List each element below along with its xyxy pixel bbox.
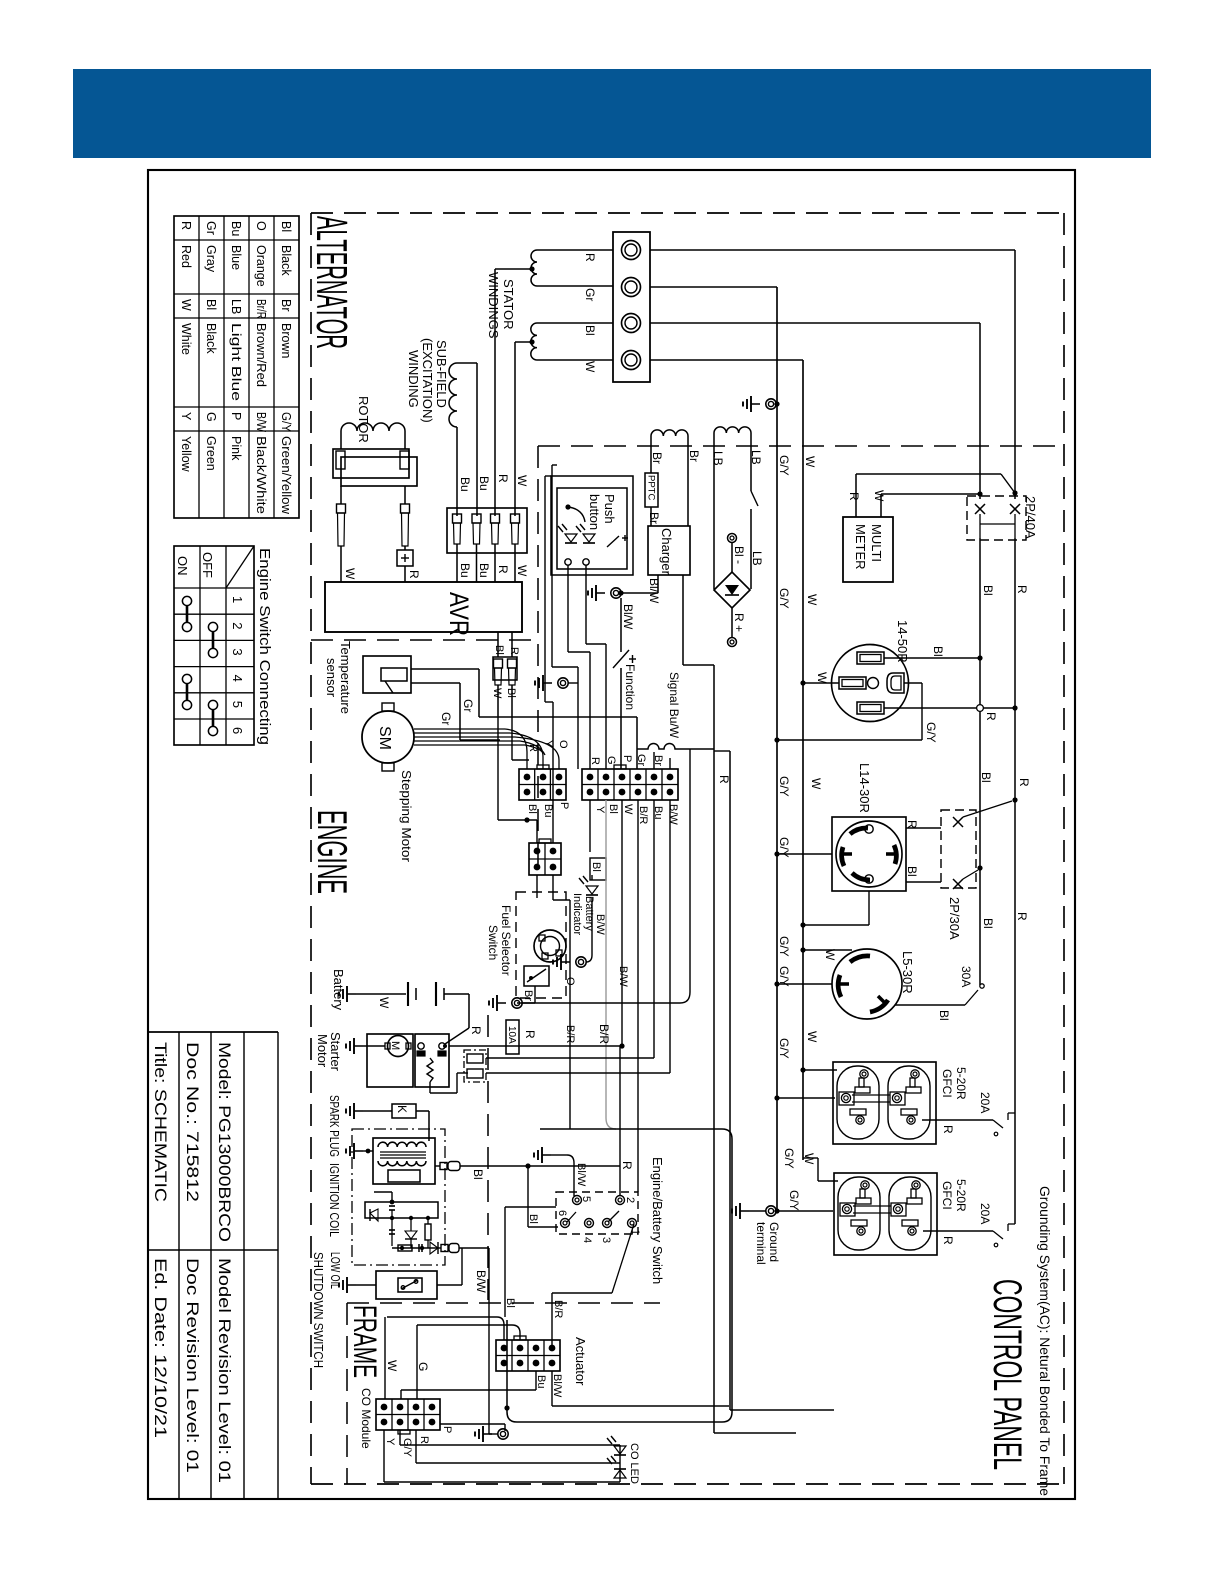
svg-text:Bl: Bl — [204, 299, 218, 310]
Bl- terminal — [728, 534, 737, 573]
svg-text:Green: Green — [204, 436, 218, 471]
svg-text:L14-30R: L14-30R — [857, 763, 872, 813]
svg-text:Bl: Bl — [607, 804, 619, 814]
LB switch — [751, 491, 758, 589]
svg-text:Engine/Battery Switch: Engine/Battery Switch — [650, 1157, 665, 1284]
temperature sensor — [363, 656, 411, 693]
svg-text:SUB-FIELD: SUB-FIELD — [434, 340, 449, 408]
svg-text:Switch: Switch — [486, 925, 500, 960]
svg-text:4: 4 — [230, 675, 245, 682]
svg-text:G/Y: G/Y — [279, 412, 293, 433]
svg-text:Gr: Gr — [204, 221, 218, 235]
svg-text:R: R — [1015, 585, 1029, 594]
svg-text:Bu: Bu — [477, 476, 491, 491]
svg-text:Gr: Gr — [461, 699, 475, 712]
push button box — [557, 488, 627, 569]
svg-text:Br: Br — [652, 755, 664, 766]
svg-text:Bl: Bl — [493, 645, 505, 655]
svg-text:CONTROL PANEL: CONTROL PANEL — [985, 1279, 1029, 1470]
push button outer box — [551, 476, 633, 575]
relay to battery wire — [443, 1028, 469, 1048]
svg-text:SM: SM — [376, 726, 393, 750]
svg-text:G/Y: G/Y — [777, 588, 791, 609]
svg-text:ROTOR: ROTOR — [356, 396, 371, 443]
svg-text:Grounding System(AC): Netura: Grounding System(AC): Netural Bonded To … — [1037, 1186, 1052, 1496]
title block — [148, 1032, 278, 1499]
Br return wire — [523, 749, 690, 1003]
drawing frame border — [148, 170, 1075, 1499]
big loop wire — [504, 1129, 732, 1422]
svg-text:R: R — [496, 565, 510, 574]
function switch — [613, 598, 636, 769]
ground terminal — [732, 1203, 780, 1219]
R+ terminal — [728, 608, 737, 647]
svg-text:Br: Br — [522, 990, 534, 1001]
gray wire curve — [606, 1118, 616, 1129]
PPTC fuse — [645, 473, 658, 526]
svg-text:R: R — [523, 1030, 537, 1039]
svg-text:R: R — [469, 1026, 483, 1035]
svg-text:B/W: B/W — [667, 804, 679, 825]
CDI network — [365, 1192, 489, 1254]
svg-text:LB: LB — [229, 299, 243, 314]
svg-text:Fuel Selector: Fuel Selector — [499, 905, 513, 976]
section boundary dashed box — [311, 213, 1064, 1484]
fuel selector knob — [534, 930, 566, 962]
svg-text:Bu: Bu — [542, 804, 554, 817]
svg-text:G/Y: G/Y — [787, 1190, 801, 1211]
svg-text:2: 2 — [624, 1197, 636, 1203]
CO LED — [607, 1436, 626, 1482]
frame ground — [475, 1424, 508, 1442]
L5-30R receptacle — [832, 949, 902, 1019]
svg-text:B/R: B/R — [637, 806, 649, 824]
svg-text:2P/30A: 2P/30A — [947, 897, 962, 940]
Bl label small box — [590, 858, 606, 880]
svg-text:Bl: Bl — [583, 325, 597, 336]
svg-text:White: White — [179, 323, 193, 355]
stator feed wires to breaker — [650, 250, 1015, 499]
svg-text:WINDING: WINDING — [406, 350, 421, 408]
charger box — [648, 526, 690, 576]
svg-text:OFF: OFF — [200, 552, 215, 578]
svg-text:G/Y: G/Y — [777, 1038, 791, 1059]
multimeter — [843, 517, 893, 582]
starter relay — [415, 1034, 468, 1093]
B/R wire from switch lever — [552, 1224, 634, 1347]
svg-text:Y: Y — [179, 412, 193, 421]
svg-text:Actuator: Actuator — [573, 1337, 588, 1386]
svg-text:Bl: Bl — [979, 772, 993, 783]
G/Y neutral bus — [743, 287, 780, 1211]
svg-text:G/Y: G/Y — [777, 776, 791, 797]
svg-text:R: R — [496, 474, 510, 483]
svg-text:Bu: Bu — [458, 477, 472, 492]
connector B (6x2) — [582, 765, 678, 800]
svg-text:W: W — [802, 1153, 816, 1165]
svg-text:W: W — [515, 565, 529, 577]
svg-text:Bl: Bl — [981, 918, 995, 929]
B/W wire from module — [489, 1248, 498, 1434]
ground mid cluster — [535, 675, 578, 691]
svg-text:6: 6 — [556, 1210, 568, 1216]
svg-text:FRAME: FRAME — [347, 1305, 383, 1378]
ignition module dash-dot box — [352, 1129, 445, 1265]
Br choke coil — [651, 430, 688, 526]
Gr wires from sensor — [411, 669, 637, 769]
W bus — [802, 360, 804, 1160]
svg-text:Gr: Gr — [439, 712, 453, 725]
svg-text:Bl/W: Bl/W — [575, 1163, 587, 1187]
svg-text:Title: SCHEMATIC: Title: SCHEMATIC — [151, 1042, 170, 1202]
svg-text:W: W — [377, 997, 391, 1009]
svg-text:Pink: Pink — [229, 436, 243, 461]
svg-text:sensor: sensor — [324, 658, 339, 698]
low oil switch — [339, 1248, 462, 1299]
engine battery switch — [556, 1192, 638, 1234]
svg-text:Bl/W: Bl/W — [621, 604, 635, 630]
rotor winding — [341, 423, 405, 431]
svg-text:Red: Red — [179, 245, 193, 268]
svg-text:R: R — [941, 1125, 955, 1134]
svg-text:Model: PG13000BRCO: Model: PG13000BRCO — [215, 1042, 234, 1242]
svg-text:Bu: Bu — [229, 221, 243, 236]
sub-field winding — [449, 363, 477, 516]
svg-text:Doc Revision Level: 01: Doc Revision Level: 01 — [183, 1258, 202, 1473]
svg-text:R: R — [905, 820, 919, 829]
plus terminal box — [341, 546, 413, 582]
svg-text:B/W: B/W — [594, 914, 606, 935]
svg-text:Charger: Charger — [659, 528, 674, 576]
svg-text:W: W — [823, 949, 837, 961]
svg-text:Br: Br — [647, 512, 661, 524]
svg-text:6: 6 — [230, 727, 245, 734]
svg-text:Battery: Battery — [583, 896, 595, 931]
svg-text:B/W: B/W — [617, 966, 629, 987]
svg-text:R +: R + — [732, 613, 746, 632]
svg-text:Bl -: Bl - — [732, 546, 746, 564]
long frame wires — [714, 665, 834, 1433]
svg-text:W: W — [179, 299, 193, 311]
svg-text:Black/White: Black/White — [254, 436, 268, 514]
svg-text:B/W: B/W — [254, 412, 268, 432]
svg-text:5: 5 — [580, 1196, 592, 1202]
L5-30R wires — [774, 947, 984, 1005]
svg-text:W: W — [809, 778, 823, 790]
svg-text:Bl: Bl — [981, 585, 995, 596]
svg-text:Bl/W: Bl/W — [647, 578, 661, 604]
hop wire over connector stubs — [637, 744, 714, 750]
svg-text:R: R — [620, 1161, 634, 1170]
svg-text:Indicator: Indicator — [571, 893, 583, 936]
svg-text:Bu: Bu — [477, 563, 491, 578]
svg-text:B/R: B/R — [552, 1300, 564, 1318]
svg-text:Stepping Motor: Stepping Motor — [399, 770, 414, 863]
connector A (3x2) — [519, 765, 566, 800]
svg-text:Br: Br — [650, 452, 664, 464]
svg-text:Bl: Bl — [279, 221, 293, 232]
svg-text:R: R — [717, 775, 731, 784]
svg-text:Br/R: Br/R — [254, 299, 268, 319]
svg-text:WINDINGS: WINDINGS — [486, 272, 501, 339]
svg-text:Light Blue: Light Blue — [229, 323, 243, 401]
svg-text:Doc No.: 715812: Doc No.: 715812 — [183, 1042, 202, 1202]
spark plug — [346, 1103, 429, 1141]
svg-text:Y: Y — [384, 1438, 396, 1446]
ground (charger) — [588, 585, 624, 601]
AVR function output pins — [493, 632, 517, 717]
battery — [408, 982, 469, 1028]
svg-text:Blue: Blue — [229, 245, 243, 270]
svg-text:Model Revision Level: 01: Model Revision Level: 01 — [215, 1258, 234, 1483]
svg-text:W: W — [343, 568, 357, 580]
svg-text:2: 2 — [230, 622, 245, 629]
svg-text:5-20R: 5-20R — [954, 1067, 968, 1100]
svg-text:B/W: B/W — [474, 1270, 488, 1293]
svg-text:Bu: Bu — [458, 563, 472, 578]
svg-text:G/Y: G/Y — [401, 1438, 413, 1458]
svg-text:R: R — [407, 570, 421, 579]
svg-text:AVR: AVR — [444, 592, 474, 636]
svg-text:SPARK PLUG: SPARK PLUG — [327, 1095, 342, 1157]
svg-text:R: R — [847, 492, 861, 501]
svg-text:3: 3 — [230, 648, 245, 655]
svg-text:Gray: Gray — [204, 245, 218, 273]
svg-text:W: W — [385, 1360, 399, 1372]
svg-text:G/Y: G/Y — [782, 1148, 796, 1169]
Bl wire down left — [505, 1207, 556, 1317]
svg-text:Signal Bu/W: Signal Bu/W — [667, 672, 681, 739]
svg-text:Y: Y — [594, 806, 606, 814]
svg-text:P: P — [621, 755, 633, 762]
svg-text:W: W — [805, 1031, 819, 1043]
svg-text:W: W — [872, 490, 886, 502]
svg-text:R: R — [589, 757, 601, 765]
indicator LEDs in push button — [558, 524, 577, 543]
svg-text:Push: Push — [602, 494, 617, 524]
LB charge winding — [714, 427, 751, 589]
svg-text:Bl: Bl — [505, 688, 517, 698]
svg-text:1: 1 — [230, 596, 245, 603]
AVR input connector — [447, 508, 527, 553]
svg-text:GFCI: GFCI — [940, 1069, 954, 1098]
R wire to switch — [619, 1046, 621, 1196]
svg-text:5-20R: 5-20R — [954, 1179, 968, 1212]
svg-text:R: R — [984, 712, 998, 721]
svg-text:Bl: Bl — [526, 804, 538, 814]
push button terminals — [565, 559, 571, 565]
svg-text:G/Y: G/Y — [924, 722, 938, 743]
svg-text:Temperature: Temperature — [338, 641, 353, 714]
svg-text:CO Module: CO Module — [359, 1388, 373, 1449]
svg-text:Brown: Brown — [279, 323, 293, 358]
svg-text:STATOR: STATOR — [501, 279, 516, 330]
switch ground — [534, 1147, 574, 1196]
ignition output — [435, 1162, 620, 1228]
svg-text:G/Y: G/Y — [777, 455, 791, 476]
svg-text:Brown/Red: Brown/Red — [254, 323, 268, 387]
push button switch — [565, 504, 628, 547]
svg-text:ON: ON — [175, 556, 190, 576]
svg-text:30A: 30A — [959, 966, 973, 987]
svg-text:W: W — [622, 804, 634, 815]
relay output wire with 10A fuse — [449, 1020, 625, 1054]
svg-text:Gr: Gr — [635, 754, 647, 767]
svg-text:Function: Function — [623, 664, 637, 710]
svg-text:5: 5 — [230, 701, 245, 708]
svg-text:P: P — [558, 802, 570, 809]
stepping motor — [362, 703, 414, 771]
svg-text:Black: Black — [204, 323, 218, 354]
svg-text:W: W — [815, 672, 829, 684]
svg-text:LB: LB — [750, 551, 764, 566]
ignition coil transformer — [373, 1138, 435, 1184]
2P/40A breaker — [967, 496, 1026, 540]
svg-text:LOW OIL: LOW OIL — [328, 1252, 343, 1289]
stepping motor wire bundle — [414, 729, 559, 769]
GFCI 1 wires — [774, 1067, 1015, 1135]
svg-text:LB: LB — [749, 450, 763, 465]
svg-text:10A: 10A — [506, 1026, 517, 1044]
cluster wires to bottom — [553, 800, 670, 1192]
14-50R wires — [774, 655, 1017, 742]
svg-text:Bl: Bl — [937, 1010, 951, 1021]
stator winding coil 2 — [515, 323, 613, 516]
svg-text:G: G — [204, 412, 218, 422]
battery ground — [339, 986, 406, 1002]
svg-text:PPTC: PPTC — [646, 475, 657, 500]
svg-text:Bl: Bl — [590, 862, 602, 872]
svg-text:Bl: Bl — [504, 1298, 516, 1308]
CO module connector (4x2) — [376, 1399, 440, 1434]
svg-text:Black: Black — [279, 245, 293, 276]
svg-text:terminal: terminal — [754, 1222, 768, 1265]
connector C (2x2) — [529, 839, 561, 875]
svg-text:2P/40A: 2P/40A — [1023, 496, 1038, 539]
GFCI duplex receptacle 1 — [833, 1062, 936, 1144]
svg-text:Ed. Date: 12/10/21: Ed. Date: 12/10/21 — [151, 1258, 170, 1438]
dual fuse dash-dot box — [464, 1050, 670, 1082]
battery indicator — [553, 875, 598, 970]
wires connector to AVR — [457, 544, 515, 582]
fuel selector ground — [489, 986, 535, 1011]
svg-text:W: W — [583, 361, 597, 373]
svg-text:P: P — [441, 1426, 453, 1433]
svg-text:ALTERNATOR: ALTERNATOR — [307, 216, 356, 349]
stator winding coil 1 — [495, 250, 613, 516]
svg-text:R: R — [527, 744, 539, 752]
svg-text:R: R — [583, 253, 597, 262]
alternator/engine boundary — [311, 446, 1064, 1484]
svg-text:G: G — [416, 1362, 430, 1371]
svg-text:Y: Y — [542, 740, 554, 748]
wire color code table — [174, 216, 299, 518]
svg-text:Orange: Orange — [254, 245, 268, 287]
svg-text:O: O — [254, 221, 268, 231]
svg-text:GFCI: GFCI — [940, 1181, 954, 1210]
2P/30A breaker — [941, 797, 1018, 889]
actuator connector (4x2) — [496, 1336, 560, 1371]
header blue banner — [73, 69, 1151, 158]
multimeter wires — [856, 474, 1018, 517]
svg-text:MULTI: MULTI — [869, 524, 884, 562]
GFCI 2 wires — [777, 1158, 1015, 1247]
svg-text:R: R — [418, 1436, 430, 1444]
svg-text:IGNITION COIL: IGNITION COIL — [327, 1163, 342, 1237]
svg-text:B/R: B/R — [597, 1024, 611, 1044]
L14-30R receptacle — [832, 817, 906, 891]
wire cluster below push button — [498, 465, 606, 843]
svg-text:Engine Switch Connecting: Engine Switch Connecting — [256, 548, 273, 745]
svg-text:G: G — [605, 756, 617, 765]
svg-text:R: R — [179, 221, 193, 230]
charger ground wire — [621, 575, 658, 593]
svg-text:ENGINE: ENGINE — [309, 810, 356, 894]
svg-text:3: 3 — [600, 1237, 612, 1243]
AVR box — [325, 582, 522, 636]
starter motor — [346, 1034, 413, 1087]
svg-text:Bl: Bl — [931, 646, 945, 657]
14-50R receptacle — [832, 645, 909, 722]
svg-text:O: O — [557, 740, 569, 749]
fuel selector microswitch — [524, 966, 549, 986]
svg-text:M: M — [389, 1041, 401, 1050]
svg-text:20A: 20A — [978, 1092, 992, 1113]
svg-text:Bl: Bl — [527, 1214, 539, 1224]
engine switch connecting table — [174, 546, 254, 745]
svg-text:SHUTDOWN SWITCH: SHUTDOWN SWITCH — [311, 1252, 326, 1368]
svg-text:R: R — [508, 647, 520, 655]
svg-text:R: R — [1015, 912, 1029, 921]
svg-text:button: button — [587, 494, 602, 530]
svg-text:Bl/W: Bl/W — [551, 1374, 563, 1398]
svg-text:Br: Br — [687, 450, 701, 462]
svg-text:Yellow: Yellow — [179, 436, 193, 473]
connector C col1 stub — [536, 875, 538, 898]
L14-30R wires — [774, 828, 941, 928]
svg-text:Bl: Bl — [471, 1169, 485, 1180]
connector B col5/6 stubs — [653, 752, 655, 769]
CO module wires — [384, 1317, 620, 1482]
charge indicator diode bridge — [714, 572, 750, 608]
signal wire from charger — [683, 575, 714, 665]
GFCI duplex receptacle 2 — [834, 1173, 937, 1255]
svg-text:G/Y: G/Y — [777, 936, 791, 957]
svg-text:P: P — [229, 412, 243, 420]
svg-text:W: W — [515, 475, 529, 487]
svg-text:W: W — [805, 594, 819, 606]
svg-text:(EXCITATION): (EXCITATION) — [420, 338, 435, 423]
rotor brush assembly — [333, 431, 417, 546]
Bl R bus — [980, 538, 1015, 1224]
svg-text:W: W — [491, 688, 503, 699]
svg-text:Bl: Bl — [905, 866, 919, 877]
svg-text:Bu: Bu — [535, 1375, 547, 1388]
fuel selector switch dashed box — [516, 892, 566, 998]
gray sense wire — [605, 800, 607, 1118]
svg-text:CO LED: CO LED — [628, 1443, 640, 1484]
svg-text:R: R — [1017, 778, 1031, 787]
svg-text:LB: LB — [711, 451, 725, 466]
svg-text:METER: METER — [853, 524, 868, 570]
actuator wires — [387, 1317, 729, 1406]
svg-text:K: K — [395, 1105, 409, 1113]
svg-text:20A: 20A — [978, 1203, 992, 1224]
svg-text:Green/Yellow: Green/Yellow — [279, 436, 293, 515]
svg-text:Gr: Gr — [583, 288, 597, 301]
ignition ground — [346, 1143, 373, 1159]
svg-text:4: 4 — [581, 1237, 593, 1243]
